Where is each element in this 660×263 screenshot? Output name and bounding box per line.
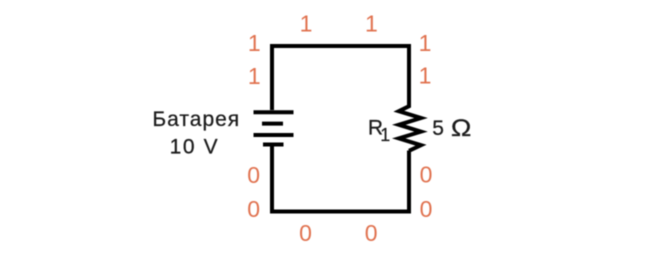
- svg-text:Ω: Ω: [451, 115, 472, 142]
- svg-text:0: 0: [365, 220, 378, 246]
- svg-text:1: 1: [300, 10, 313, 36]
- svg-text:1: 1: [419, 30, 432, 56]
- svg-text:1: 1: [248, 30, 261, 56]
- svg-text:0: 0: [420, 161, 433, 187]
- svg-text:1: 1: [380, 125, 390, 145]
- svg-text:1: 1: [248, 63, 261, 89]
- svg-text:1: 1: [365, 10, 378, 36]
- svg-text:5: 5: [432, 117, 444, 140]
- svg-text:10 V: 10 V: [170, 135, 220, 158]
- svg-text:0: 0: [247, 196, 260, 222]
- svg-text:0: 0: [420, 196, 433, 222]
- svg-text:0: 0: [299, 220, 312, 246]
- svg-text:Батарея: Батарея: [152, 108, 240, 131]
- svg-text:0: 0: [247, 162, 260, 188]
- svg-text:1: 1: [419, 62, 432, 88]
